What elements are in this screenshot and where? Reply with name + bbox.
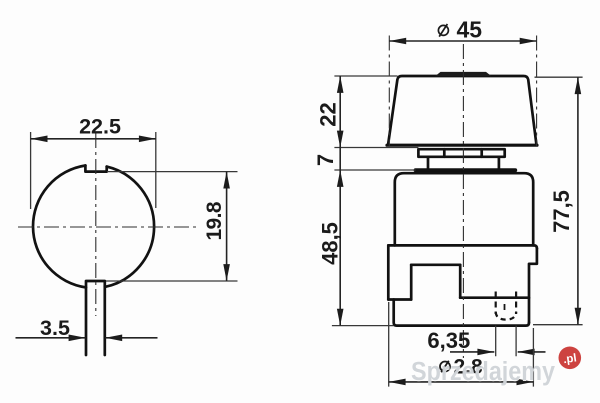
svg-text:22.5: 22.5 (79, 115, 121, 139)
knob bottom edge (thick) (387, 144, 537, 147)
svg-text:Sprzedajemy: Sprzedajemy (411, 358, 556, 386)
svg-text:6,35: 6,35 (427, 328, 470, 353)
svg-text:22: 22 (315, 102, 340, 126)
bottom slot (86, 281, 105, 355)
dim 6.35 extension lines (496, 326, 516, 357)
dim 22.5 extension lines (31, 132, 156, 209)
svg-text:45: 45 (457, 17, 483, 43)
hidden terminal hole (dashed) (496, 292, 516, 315)
dim 77.5 line (577, 77, 579, 324)
dim 6.35 arrows (477, 349, 494, 356)
dim dia2.8 line (389, 381, 534, 383)
bottom block (394, 300, 529, 326)
dim 22 arrows (337, 76, 344, 93)
inner contour left vertical (410, 265, 413, 300)
dim 48.5 extension line (body bottom, left) (332, 325, 394, 327)
flange bottom-left step (388, 298, 411, 301)
svg-text:7: 7 (313, 154, 338, 166)
dim 22/7 extension line (knob bottom, left) (334, 147, 418, 149)
flange top edge (388, 245, 537, 248)
dim dia45 arrows (389, 38, 406, 45)
svg-text:77,5: 77,5 (549, 190, 574, 233)
vertical centerline (95, 133, 97, 316)
knob top indicator ridge (435, 72, 492, 76)
vertical centerline (right view) (462, 44, 464, 358)
dim 77.5 arrows (575, 77, 582, 94)
inner contour top (411, 263, 460, 266)
dim 77.5 extension lines (533, 77, 583, 325)
dim 22 extension line (knob top, left) (334, 75, 397, 77)
knob body (tapered cap) (388, 76, 537, 145)
flange left edge (387, 245, 390, 299)
stem (428, 157, 499, 169)
mounting plate (thick) (416, 168, 516, 172)
horizontal centerline (18, 226, 196, 228)
dim 48.5 bottom arrow (337, 309, 344, 326)
svg-text:.pl: .pl (563, 352, 578, 366)
collar ticks (444, 149, 481, 157)
inner contour bottom (460, 296, 529, 299)
collar below knob (418, 149, 504, 157)
dim 7 / 48.5 shared arrow (points up to plate line) (337, 170, 344, 187)
dim 22.5 arrows (31, 136, 48, 143)
dim dia45 extension lines (dash-dot) (389, 36, 536, 147)
dim dia2.8 arrows (389, 379, 406, 386)
svg-text:3.5: 3.5 (40, 316, 70, 340)
dim 19.8 line (226, 172, 228, 281)
dim dia45 diameter symbol (438, 24, 448, 37)
upper body (395, 173, 533, 245)
watermark red circle .pl (559, 347, 582, 370)
dim 6.35 arrow lines (450, 351, 546, 353)
inner contour right vertical (459, 265, 462, 298)
dim 22.5 line (31, 138, 156, 140)
dim 3.5 arrow lines (16, 337, 158, 339)
dim dia2.8 extension lines (389, 302, 534, 387)
dim 3.5 arrows (69, 335, 86, 342)
dim 7/48.5 extension line (plate, left) (334, 169, 415, 171)
svg-text:48,5: 48,5 (318, 222, 343, 265)
top keyway notch (85, 166, 106, 172)
circle outline (knob shaft section) (33, 166, 154, 288)
dim dia2.8 diameter symbol (440, 361, 450, 373)
svg-text:19.8: 19.8 (203, 201, 226, 240)
flange right edge with step (529, 248, 537, 322)
dim dia45 line (389, 40, 536, 42)
dim 19.8 arrows (223, 172, 230, 189)
dim 19.8 extension lines (106, 172, 238, 281)
left dim stack line (339, 76, 341, 326)
